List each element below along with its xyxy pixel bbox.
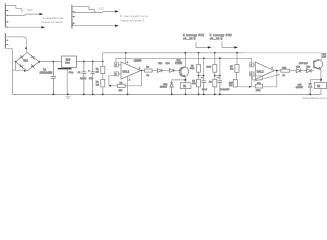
- svg-text:1M: 1M: [96, 71, 99, 73]
- resistor R10: [233, 79, 237, 87]
- resistor R7: [213, 65, 217, 73]
- connector XS3 bottom edge: [6, 48, 12, 50]
- relay K2: [320, 80, 322, 83]
- pin 4 stub: [127, 76, 129, 94]
- wire from XS2 pin 3: [73, 23, 116, 26]
- wire VD6 to VT2 base: [311, 70, 314, 72]
- arrow to PSU output 2: [115, 10, 119, 12]
- resistor R2: [101, 79, 105, 87]
- op-amp2 output: [274, 70, 281, 72]
- bridge diode mark top-right: [31, 55, 35, 59]
- wire divider to pin3: [109, 76, 114, 86]
- connector XS2 outline: [73, 7, 96, 13]
- connector XS3 pin 2: [6, 44, 8, 46]
- diode VD3: [169, 69, 174, 73]
- feedback wire 1: [109, 85, 142, 87]
- connector XS1 pin 3: [6, 21, 8, 23]
- VT1 emitter wire: [184, 77, 186, 80]
- pin box 3: [114, 72, 118, 76]
- wire to VD7: [310, 80, 321, 84]
- arrow to PSU output 2b: [115, 25, 119, 27]
- wire from XS2 pin 1: [73, 11, 116, 12]
- capacitor C5: [218, 76, 223, 95]
- resistor R4 series: [145, 69, 153, 72]
- rail B tap 2: [219, 57, 221, 59]
- svg-text:VD1: VD1: [23, 60, 28, 63]
- resistor R6: [197, 79, 201, 87]
- feedback riser 2: [276, 71, 278, 87]
- connector XS1 body: [4, 4, 6, 28]
- rail A positive supply: [103, 52, 245, 54]
- svg-text:DA1.1: DA1.1: [123, 71, 130, 74]
- arrow PSU output 2: [222, 42, 235, 48]
- svg-text:K выпpямитeлю: K выпpямитeлю: [43, 16, 64, 20]
- capacitor C3 plus: [88, 70, 90, 72]
- resistor R9: [235, 65, 239, 73]
- VT1 emitter arrow: [183, 74, 185, 77]
- node C3 top: [92, 61, 94, 63]
- node output 2: [276, 70, 278, 72]
- wire bridge left to minus column: [13, 62, 25, 70]
- node C2 top: [83, 61, 85, 63]
- diode VD7: [308, 83, 312, 94]
- node output 1: [141, 70, 143, 72]
- wire VD3 to VT1 base: [174, 70, 181, 72]
- rail B tap 1: [203, 57, 205, 59]
- wire bridge to regulator: [39, 61, 61, 63]
- pin box 5: [250, 72, 254, 76]
- connector XS1 pin 4: [6, 26, 8, 28]
- connector XS1 pin 1: [6, 10, 8, 12]
- capacitor C4: [201, 76, 206, 95]
- ground rail junction dots: [53, 94, 55, 96]
- rail A start riser: [102, 53, 104, 62]
- svg-text:K выxoдy БП1: K выxoдy БП1: [183, 33, 205, 37]
- connector XS2 pin 1: [73, 11, 75, 13]
- op-amp DA1.1: [121, 62, 141, 79]
- connector XS3 body: [4, 33, 6, 49]
- ground rail: [13, 89, 322, 95]
- svg-text:1M: 1M: [96, 84, 99, 86]
- node bridge left: [15, 61, 17, 63]
- bridge diode mark bottom-left: [20, 64, 24, 68]
- svg-text:X3.2: X3.2: [99, 7, 105, 10]
- wire R4 to VD2: [152, 70, 157, 72]
- feedback riser 1: [141, 71, 143, 86]
- transistor VT2: [314, 60, 323, 69]
- relay K1: [184, 80, 186, 95]
- svg-text:1N4007: 1N4007: [160, 87, 168, 89]
- pin 5 wire: [250, 76, 252, 87]
- svg-text:VT1: VT1: [177, 61, 182, 63]
- resistor R11: [255, 84, 262, 88]
- bridge diode mark bottom-right: [31, 64, 35, 68]
- svg-text:K выxoдy БП2: K выxoдy БП2: [210, 33, 232, 37]
- diode VD6: [307, 69, 312, 73]
- divider column R7 R8: [214, 52, 216, 54]
- VT1 collector wire: [184, 53, 186, 67]
- diode bridge VD1: [16, 52, 40, 71]
- ground symbol: [66, 97, 71, 98]
- connector XS2 pin 2: [73, 16, 75, 18]
- svg-text:O6щ: O6щ: [69, 72, 74, 74]
- resistor R13: [281, 69, 290, 72]
- svg-text:+5...30 B: +5...30 B: [210, 37, 223, 40]
- node R1 top: [102, 61, 104, 63]
- wire VD5 to VD6: [301, 70, 307, 72]
- svg-text:K выпpямитeлю: K выпpямитeлю: [120, 14, 148, 18]
- svg-text:X3.1: X3.1: [28, 9, 34, 12]
- resistor R1: [102, 61, 104, 79]
- pin 8 stub: [125, 52, 127, 54]
- connector XS3 pin 1: [6, 39, 8, 41]
- svg-text:KT815: KT815: [175, 63, 182, 65]
- op-amp DA1.2: [255, 62, 274, 79]
- node bridge bottom: [24, 70, 26, 72]
- diode VD2: [157, 69, 162, 73]
- svg-text:www.radiocxema.ru: www.radiocxema.ru: [303, 96, 327, 100]
- svg-text:0,1mk: 0,1mk: [80, 78, 87, 80]
- node divider 2: [214, 75, 216, 77]
- svg-text:блoкa питaния: блoкa питaния: [41, 20, 63, 24]
- rail B inverting input wire: [116, 58, 251, 63]
- node VT2 emitter: [320, 79, 322, 81]
- resistor R8: [213, 79, 217, 87]
- regulator DA2 box: [62, 56, 77, 68]
- resistor R3 feedback: [118, 84, 126, 87]
- svg-text:7805: 7805: [65, 62, 71, 64]
- divider column R9 R10: [236, 52, 238, 54]
- wire from XS1 pin 2: [6, 14, 40, 15]
- connector XS2 body: [71, 5, 73, 29]
- svg-text:блoкa питaния 2: блoкa питaния 2: [120, 18, 144, 22]
- arrow to rectifier 1b: [41, 26, 45, 28]
- rail A right light part: [245, 53, 321, 60]
- node C1 top: [53, 61, 55, 63]
- node divider 1: [198, 75, 200, 77]
- node bridge right: [38, 61, 40, 63]
- pin box 2: [114, 63, 118, 67]
- svg-text:LM358: LM358: [134, 60, 142, 63]
- capacitor C1: [51, 62, 56, 95]
- wire to VD4: [172, 80, 186, 83]
- node feedback 2: [249, 86, 251, 88]
- connector XS2 pin 3: [73, 22, 75, 24]
- wire minus column: [12, 49, 14, 95]
- op-amp1 output: [141, 70, 145, 72]
- connector XS3 outline: [6, 37, 26, 52]
- capacitor C3: [90, 61, 95, 94]
- wire VD2 to VD3: [162, 70, 170, 72]
- pin box 6: [250, 63, 254, 67]
- node VT1 emitter: [184, 79, 186, 81]
- trimmer R12: [251, 77, 252, 79]
- VT2 emitter wire: [320, 70, 322, 80]
- node feedback 1: [109, 85, 111, 87]
- transistor VT1: [179, 67, 189, 77]
- arrow PSU output 1: [196, 42, 208, 48]
- wire R13 to VD5: [290, 70, 297, 72]
- feedback wire 2: [237, 86, 277, 88]
- svg-text:DA2: DA2: [66, 58, 71, 61]
- wire from XS1 pin 4: [6, 26, 42, 28]
- regulator type dark label: [58, 68, 72, 70]
- svg-text:DA1.2: DA1.2: [257, 71, 264, 74]
- VT2 emitter arrow: [319, 67, 322, 70]
- node AC1: [25, 47, 27, 49]
- diode VD4: [170, 83, 174, 95]
- diode VD5: [296, 69, 301, 73]
- svg-text:VD5 VD6: VD5 VD6: [299, 63, 309, 65]
- svg-text:1000,0x25B: 1000,0x25B: [40, 71, 53, 74]
- connector XS1 pin 2: [6, 14, 8, 16]
- svg-text:10mkx16B: 10mkx16B: [220, 89, 230, 91]
- regulator ground pin: [66, 69, 68, 94]
- connector XS1 outline: [6, 5, 23, 11]
- svg-text:1N4007: 1N4007: [296, 87, 304, 89]
- bridge diode mark top-left: [20, 55, 24, 59]
- capacitor C2: [82, 61, 87, 94]
- arrow to rectifier 1: [40, 13, 44, 15]
- divider column R5 R6: [198, 52, 200, 54]
- resistor R5: [197, 65, 201, 73]
- svg-text:+5...30 B: +5...30 B: [183, 37, 196, 40]
- wire regulator output: [77, 60, 103, 62]
